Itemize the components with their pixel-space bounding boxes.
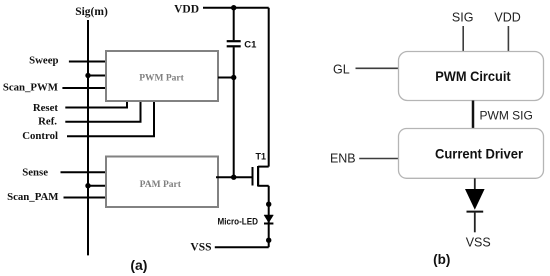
svg-text:T1: T1 bbox=[256, 152, 267, 162]
svg-text:Reset: Reset bbox=[33, 102, 59, 114]
svg-text:Current Driver: Current Driver bbox=[435, 145, 524, 161]
svg-text:Sense: Sense bbox=[22, 167, 48, 179]
capacitor C1 plates bbox=[227, 40, 241, 42]
svg-text:PAM Part: PAM Part bbox=[140, 180, 182, 190]
junction dot on Sig(m) bus at PWM tap bbox=[85, 73, 90, 78]
svg-text:Micro-LED: Micro-LED bbox=[218, 217, 259, 227]
block PWM Part bbox=[106, 51, 218, 101]
block Current Driver bbox=[399, 129, 544, 179]
svg-text:PWM Circuit: PWM Circuit bbox=[435, 68, 511, 84]
transistor T1 gate bar bbox=[252, 167, 254, 186]
svg-text:Scan_PAM: Scan_PAM bbox=[7, 191, 58, 203]
svg-text:VDD: VDD bbox=[494, 11, 520, 25]
svg-text:VSS: VSS bbox=[466, 236, 491, 250]
svg-text:(b): (b) bbox=[433, 252, 450, 267]
svg-text:PWM Part: PWM Part bbox=[139, 73, 184, 83]
diode LED anode triangle (b) bbox=[465, 189, 485, 210]
junction dot VDD rail / C1 bbox=[231, 5, 236, 10]
svg-text:(a): (a) bbox=[130, 257, 147, 273]
wire Scan_PWM bbox=[62, 87, 106, 89]
wire Reset (into PWM Part bottom) bbox=[65, 101, 127, 108]
svg-text:C1: C1 bbox=[244, 39, 257, 50]
wire Control (into PWM Part bottom) bbox=[67, 101, 154, 136]
svg-text:VSS: VSS bbox=[190, 242, 211, 254]
junction dot below Micro-LED bbox=[266, 238, 271, 243]
diode Micro-LED cathode bar bbox=[264, 223, 273, 225]
wire VDD stub bbox=[507, 26, 509, 52]
wire SIG stub bbox=[462, 26, 464, 52]
junction dot above Micro-LED bbox=[266, 202, 271, 207]
transistor T1 source lead bbox=[258, 185, 269, 187]
wire Sig(m) tap to PAM Part bbox=[88, 185, 106, 187]
transistor T1 drain lead bbox=[258, 166, 269, 168]
wire diode to VSS stub bbox=[474, 212, 476, 233]
block PAM Part bbox=[106, 157, 218, 208]
wire Scan_PAM bbox=[64, 197, 107, 199]
wire Sig(m) vertical bus bbox=[87, 20, 89, 255]
svg-text:ENB: ENB bbox=[330, 151, 356, 165]
junction dot gate node bbox=[231, 175, 236, 180]
wire Sweep bbox=[69, 61, 106, 63]
wire source down to VSS bbox=[268, 186, 270, 247]
svg-text:Sweep: Sweep bbox=[29, 55, 58, 67]
svg-text:Scan_PWM: Scan_PWM bbox=[3, 81, 58, 93]
junction dot PWM output on C1 net bbox=[231, 75, 236, 80]
svg-text:Ref.: Ref. bbox=[38, 116, 57, 128]
wire C1 bottom lead down to gate node bbox=[233, 47, 235, 177]
junction dot on Sig(m) bus at PAM tap bbox=[85, 183, 90, 188]
svg-text:Sig(m): Sig(m) bbox=[75, 6, 108, 18]
svg-text:GL: GL bbox=[333, 62, 350, 76]
block PWM Circuit bbox=[399, 52, 544, 101]
wire Current Driver output stub bbox=[474, 178, 476, 189]
wire VSS bbox=[215, 246, 269, 248]
wire VDD rail bbox=[203, 7, 269, 9]
wire PAM Part output / T1 gate wire bbox=[216, 176, 253, 178]
svg-text:SIG: SIG bbox=[452, 11, 474, 25]
diode Micro-LED anode triangle bbox=[264, 215, 273, 223]
wire PWM Part output to C1 net bbox=[218, 77, 234, 79]
wire VDD right rail down to drain bbox=[268, 8, 270, 167]
svg-text:PWM SIG: PWM SIG bbox=[480, 109, 533, 123]
transistor T1 channel bar bbox=[257, 166, 259, 187]
svg-text:Control: Control bbox=[22, 130, 58, 142]
diode LED cathode bar (b) bbox=[467, 211, 484, 213]
wire PWM SIG bbox=[472, 101, 475, 129]
wire Ref. (into PWM Part bottom) bbox=[65, 101, 140, 122]
wire GL bbox=[356, 67, 399, 69]
svg-text:VDD: VDD bbox=[174, 3, 199, 15]
wire Sig(m) tap to PWM Part bbox=[88, 75, 106, 77]
wire ENB bbox=[359, 158, 398, 160]
wire C1 top lead bbox=[233, 8, 235, 41]
wire Sense bbox=[61, 171, 107, 173]
